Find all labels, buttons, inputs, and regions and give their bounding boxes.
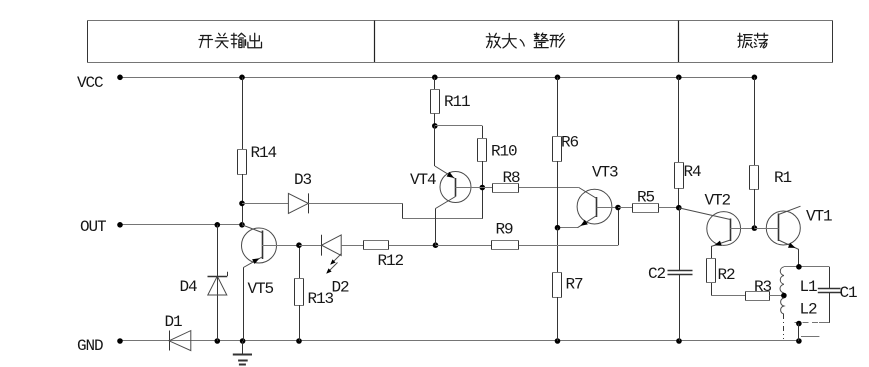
label D2 — [332, 279, 350, 297]
svg-text:C2: C2 — [648, 265, 666, 283]
resistor R9 — [491, 208, 619, 251]
label R4 — [684, 163, 702, 181]
inductor L2 — [781, 298, 784, 314]
svg-text:R6: R6 — [561, 134, 579, 152]
junction R14-D3 — [239, 201, 245, 207]
header text char 输 — [231, 33, 246, 48]
resistor R7 — [552, 228, 562, 341]
junction GND-tank — [796, 338, 802, 344]
wire D3 to node A — [308, 188, 482, 219]
junction VT1 emitter-tank — [796, 264, 802, 270]
resistor R10 — [435, 126, 487, 188]
resistor R4 — [674, 77, 684, 207]
wire GND rail — [120, 340, 799, 342]
resistor R11 — [430, 77, 440, 126]
transistor VT4 — [435, 126, 483, 245]
header text char 荡 — [754, 33, 768, 48]
svg-text:R3: R3 — [754, 278, 772, 296]
label R12 — [378, 252, 404, 270]
label R14 — [251, 144, 277, 162]
junction GND-VT5 emitter — [240, 338, 246, 344]
label R6 — [561, 134, 579, 152]
label VT4 — [410, 171, 436, 189]
svg-text:C1: C1 — [840, 284, 858, 302]
junction coil tap-R3 — [781, 293, 787, 299]
header box — [87, 20, 833, 63]
label VT2 — [705, 192, 731, 210]
header text char 关 — [215, 33, 228, 47]
header divider 1 — [374, 21, 376, 63]
resistor R3 — [745, 291, 784, 301]
header text char 振 — [738, 33, 752, 47]
zener diode D4 — [208, 225, 228, 341]
junction VCC-R6 — [555, 75, 561, 81]
header text char 形 — [550, 34, 565, 48]
capacitor C2 — [668, 208, 693, 341]
svg-text:R13: R13 — [308, 290, 334, 308]
svg-text:R1: R1 — [774, 169, 792, 187]
header text char 整 — [534, 33, 548, 48]
resistor R2 — [706, 258, 745, 296]
label D3 — [294, 171, 312, 189]
svg-text:R8: R8 — [503, 169, 521, 187]
label C1 — [840, 284, 858, 302]
header text char 、 — [520, 40, 524, 46]
label R9 — [496, 221, 514, 239]
junction VCC-R1 — [752, 75, 758, 81]
svg-text:VT2: VT2 — [705, 192, 731, 210]
svg-text:D2: D2 — [332, 279, 350, 297]
junction OUT-D4 — [215, 222, 221, 228]
svg-text:VT1: VT1 — [806, 208, 832, 226]
label R13 — [308, 290, 334, 308]
label VT5 — [248, 280, 274, 298]
svg-text:D4: D4 — [180, 278, 198, 296]
label L2 — [800, 301, 818, 319]
junction GND-R7 — [555, 338, 561, 344]
wire tank top — [784, 266, 829, 268]
transistor VT1 — [754, 206, 800, 267]
svg-text:R9: R9 — [496, 221, 514, 239]
svg-text:R2: R2 — [718, 266, 736, 284]
svg-text:GND: GND — [77, 337, 103, 355]
junction node A base VT4 — [480, 185, 486, 191]
resistor R8 — [482, 183, 579, 193]
label R3 — [754, 278, 772, 296]
header text char 放 — [486, 33, 500, 47]
junction GND-C2 — [676, 338, 682, 344]
junction OUT-R14-VT5 — [239, 222, 245, 228]
wire R12 node to R9 — [436, 245, 492, 247]
wire stub bottom right — [801, 336, 819, 338]
label R11 — [444, 93, 470, 111]
junction GND-D4 — [215, 338, 221, 344]
svg-text:R4: R4 — [684, 163, 702, 181]
header divider 2 — [678, 21, 680, 63]
resistor R6 — [552, 77, 562, 227]
resistor R1 — [749, 77, 759, 228]
label D4 — [180, 278, 198, 296]
junction VT3 emitter-R6-R7 — [555, 225, 561, 231]
led D2 arrows — [326, 254, 341, 274]
wire tank bottom dashed — [795, 322, 819, 324]
junction VCC-R11 — [432, 75, 438, 81]
label R2 — [718, 266, 736, 284]
inductor L1 — [780, 267, 784, 298]
junction R11-R10-VT4 — [432, 123, 438, 129]
junction VT3 base-R9-R5 — [615, 205, 621, 211]
svg-text:R14: R14 — [251, 144, 277, 162]
label VT3 — [592, 164, 618, 182]
junction OUT left end — [117, 222, 123, 228]
junction GND left end — [117, 338, 123, 344]
svg-text:R5: R5 — [637, 189, 655, 207]
junction GND-R13 — [296, 338, 302, 344]
diode D3 — [242, 193, 309, 213]
svg-text:VT4: VT4 — [410, 171, 436, 189]
header text char 开 — [199, 36, 213, 48]
resistor R13 — [294, 245, 304, 341]
label R8 — [503, 169, 521, 187]
svg-text:OUT: OUT — [80, 218, 106, 236]
transistor VT5 — [242, 225, 300, 341]
core dash-dot line — [783, 314, 785, 339]
label R5 — [637, 189, 655, 207]
label R1 — [774, 169, 792, 187]
resistor R5 — [618, 203, 679, 213]
label R7 — [566, 276, 584, 294]
svg-text:VT5: VT5 — [248, 280, 274, 298]
label VT1 — [806, 208, 832, 226]
svg-text:R12: R12 — [378, 252, 404, 270]
label C2 — [648, 265, 666, 283]
node GND label — [77, 337, 103, 355]
svg-text:R7: R7 — [566, 276, 584, 294]
wire tank bottom to GND — [798, 324, 800, 342]
svg-text:R10: R10 — [491, 143, 517, 161]
junction VCC-R14 — [239, 75, 245, 81]
node OUT label — [80, 218, 106, 236]
junction tank bottom — [796, 321, 802, 327]
label L1 — [800, 278, 818, 296]
header text char 大 — [502, 33, 516, 48]
resistor R12 — [363, 240, 436, 250]
junction VCC left end — [117, 75, 123, 81]
label D1 — [165, 313, 183, 331]
ground symbol — [233, 341, 252, 365]
junction VT5 base-R13-D2 — [296, 242, 302, 248]
diode D1 — [169, 331, 191, 351]
junction VT2-VT1 bases-R1 — [752, 225, 758, 231]
header text char 出 — [248, 33, 262, 47]
transistor VT3 — [558, 188, 619, 228]
junction VCC-R4 — [676, 75, 682, 81]
node VCC label — [77, 74, 103, 92]
wire OUT rail — [120, 224, 242, 226]
wire VCC rail — [120, 77, 754, 79]
transistor VT2 — [679, 208, 754, 259]
svg-text:R11: R11 — [444, 93, 470, 111]
label R10 — [491, 143, 517, 161]
capacitor C1 — [818, 267, 841, 323]
resistor R14 — [237, 77, 247, 225]
svg-text:D3: D3 — [294, 171, 312, 189]
junction R12-VT4 collector — [433, 242, 439, 248]
svg-text:L2: L2 — [800, 301, 818, 319]
svg-text:VT3: VT3 — [592, 164, 618, 182]
junction R4-R5-C2-VT2 — [676, 205, 682, 211]
svg-text:VCC: VCC — [77, 74, 103, 92]
led D2 — [299, 235, 363, 256]
svg-text:L1: L1 — [800, 278, 818, 296]
svg-text:D1: D1 — [165, 313, 183, 331]
